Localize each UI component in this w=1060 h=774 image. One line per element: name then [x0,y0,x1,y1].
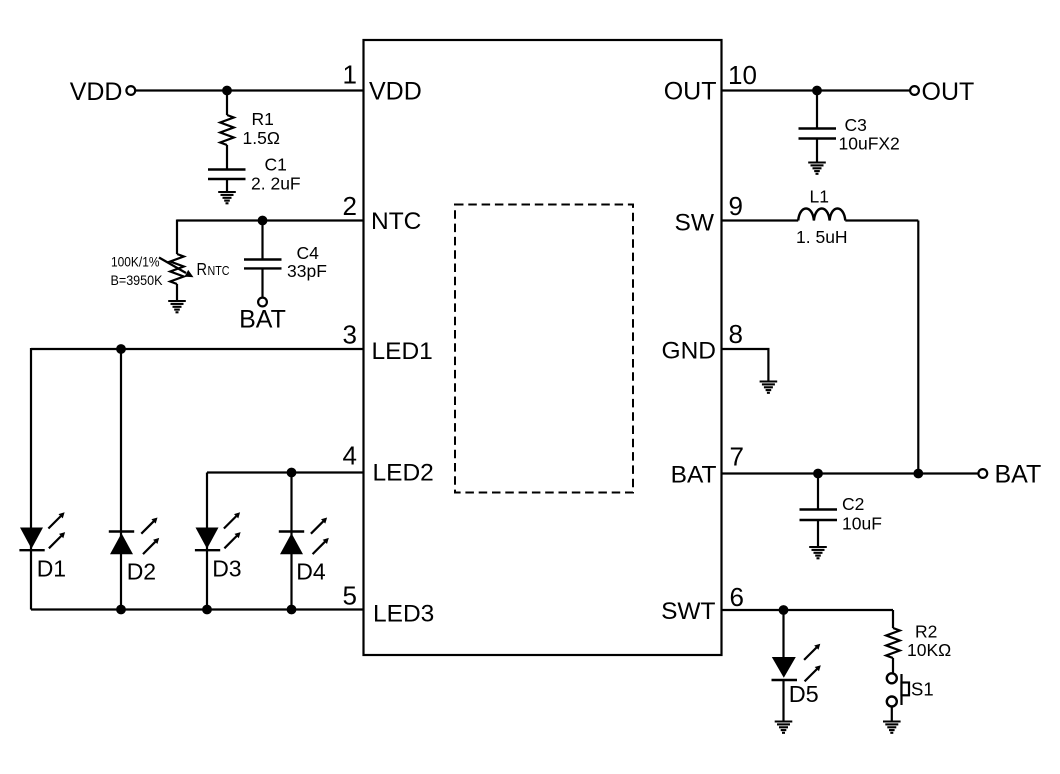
junction on LED2 wire [287,468,297,478]
wire pin 7 [722,472,979,474]
capacitor C4 [244,221,282,298]
svg-text:VDD: VDD [369,77,422,105]
svg-text:R1: R1 [252,109,274,129]
wire pin 2 [177,219,364,221]
svg-text:VDD: VDD [70,78,123,106]
svg-text:LED1: LED1 [372,338,433,365]
svg-text:S1: S1 [911,679,934,700]
resistor R2 [886,628,900,673]
terminal OUT [910,78,974,106]
LED D2 [109,518,159,555]
svg-text:C2: C2 [842,494,864,514]
ground under C1 [218,192,236,203]
svg-text:2. 2uF: 2. 2uF [251,174,301,194]
svg-text:OUT: OUT [922,78,975,106]
svg-text:BAT: BAT [671,461,717,488]
capacitor C1 [208,170,246,193]
svg-text:D1: D1 [37,556,66,582]
svg-text:7: 7 [730,442,744,472]
svg-text:SW: SW [675,210,715,237]
wire pin 10 [722,89,911,91]
wire pin 5 [31,608,364,610]
switch S1 [887,673,909,721]
wire pin 9 [722,219,799,221]
junction LED3/D3 [202,605,212,615]
svg-text:10uFX2: 10uFX2 [839,134,900,154]
svg-text:2: 2 [343,191,357,221]
wire pin 4 [207,471,364,473]
junction on OUT wire [812,86,822,96]
svg-text:D4: D4 [296,558,326,584]
ground under C2 [809,547,827,558]
svg-text:D3: D3 [212,556,241,582]
svg-text:33pF: 33pF [287,261,327,281]
svg-text:6: 6 [730,582,744,612]
junction on LED1 wire [116,344,126,354]
resistor R1 [220,91,234,170]
svg-text:100K/1%: 100K/1% [111,254,160,270]
svg-text:10uF: 10uF [842,514,882,534]
wire pin 8 [722,349,769,381]
svg-text:1. 5uH: 1. 5uH [796,227,848,247]
svg-text:BAT: BAT [239,306,286,334]
wire from L1 to BAT column [845,219,918,221]
svg-text:L1: L1 [810,187,829,207]
svg-text:3: 3 [343,320,357,350]
wire pin 3 [31,348,364,350]
svg-text:LED2: LED2 [373,460,434,487]
junction LED3/D2 [116,605,126,615]
svg-text:10: 10 [728,60,757,90]
svg-text:C4: C4 [297,243,320,263]
svg-text:8: 8 [729,319,743,349]
svg-text:C1: C1 [265,155,287,175]
ground on GND pin [760,382,778,393]
svg-text:NTC: NTC [371,208,421,235]
capacitor C2 [800,474,838,547]
svg-text:GND: GND [662,337,716,364]
svg-text:R: R [197,259,208,279]
wire vertical SW to BAT row [917,221,919,474]
svg-text:OUT: OUT [664,77,717,105]
dashed internal box [455,205,633,493]
wire D3 column [206,473,208,610]
svg-text:9: 9 [729,191,743,221]
svg-text:D2: D2 [127,558,156,584]
LED D5 [772,610,821,721]
LED D1 [19,512,65,550]
thermistor RNTC [159,254,194,301]
svg-text:SWT: SWT [661,598,715,625]
wire D1 column [30,348,32,610]
wire SWT to R2 [892,610,894,628]
LED D3 [195,512,241,550]
svg-text:D5: D5 [789,681,819,707]
svg-text:R2: R2 [915,622,937,642]
svg-text:NTC: NTC [208,264,230,278]
svg-text:1: 1 [343,60,357,90]
junction on VDD wire [222,86,232,96]
junction SWT/D5 [779,605,789,615]
junction BAT/C2 [813,469,823,479]
wire NTC branch down [176,220,178,255]
wire pin 1 [135,89,363,91]
wire D4 column [290,473,292,610]
ground under RNTC [168,301,186,312]
terminal VDD [70,78,135,106]
capacitor C3 [799,91,837,163]
junction LED3/D4 [287,605,297,615]
inductor L1 [798,209,845,221]
terminal BAT [978,461,1041,489]
svg-text:4: 4 [343,441,357,471]
svg-text:BAT: BAT [995,461,1042,489]
junction on NTC wire [258,216,268,226]
LED D4 [279,518,329,555]
IC U1 body [364,40,722,655]
wire pin 6 [722,609,894,611]
wire D2 column [120,349,122,610]
svg-text:LED3: LED3 [373,600,434,627]
ground under D5 [775,722,793,733]
ground under S1 [883,722,901,733]
ground under C3 [808,163,826,174]
svg-text:B=3950K: B=3950K [111,272,164,288]
svg-text:1.5Ω: 1.5Ω [243,128,280,148]
junction BAT/SW column [913,469,923,479]
svg-text:5: 5 [343,581,357,611]
svg-text:C3: C3 [845,115,867,135]
svg-text:10KΩ: 10KΩ [907,640,951,660]
terminal BAT under C4 [239,298,286,334]
